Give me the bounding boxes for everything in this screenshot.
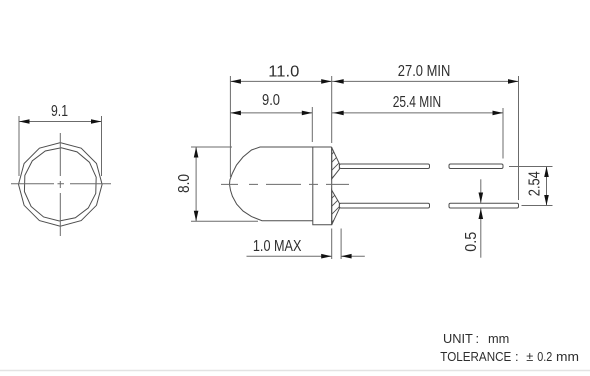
dim 9.1 arrow left [19, 119, 30, 124]
svg-text:0.5: 0.5 [463, 232, 480, 252]
dim 9.1 extension line right [101, 116, 103, 176]
dim 2.54 arrow bottom [544, 195, 549, 206]
dim 2.54 arrow top [544, 167, 549, 178]
svg-text:25.4 MIN: 25.4 MIN [393, 94, 442, 111]
dim 27.0 MIN arrow right [508, 79, 519, 84]
dim 1.0 MAX arrow right [341, 254, 352, 259]
dim 9.1 extension line left [18, 116, 20, 176]
dim 8.0 extension line bottom [191, 220, 258, 222]
dim 9.1 dimension line [19, 121, 102, 123]
LED dome circle (front view, faceted) [24, 148, 96, 221]
dim shared extension line (dome tip) [229, 76, 231, 177]
centerline horizontal (front view) [11, 183, 111, 185]
dim 25.4 MIN dimension line [332, 112, 503, 114]
svg-text:9.1: 9.1 [51, 103, 68, 120]
centerline vertical (front view) [59, 133, 61, 236]
dim 0.5 leader line upper [480, 179, 482, 203]
dim 2.54 dimension line [546, 167, 548, 206]
dim 11.0 arrow left [230, 79, 241, 84]
dim 9.0 dimension line [230, 112, 312, 114]
dim 1.0 MAX leader line right [341, 255, 365, 257]
dim 0.5 leader line lower [480, 209, 482, 258]
dim 11.0 dimension line [230, 80, 331, 82]
bottom page rule [0, 370, 590, 372]
svg-text:9.0: 9.0 [262, 92, 280, 109]
dim 27.0 MIN arrow left [333, 79, 344, 84]
svg-text:2.54: 2.54 [527, 171, 544, 196]
dim 1.0 MAX leader line left [247, 255, 332, 257]
dim 2.54 extension line bottom [522, 205, 553, 207]
dim 0.5 arrow lower (points up) [479, 209, 484, 220]
svg-text:1.0 MAX: 1.0 MAX [253, 238, 302, 255]
LED body dome profile [230, 147, 332, 221]
dim 8.0 extension line top [191, 146, 232, 148]
dim 2.54 extension line top [509, 166, 553, 168]
bottom lead segment 2 (after break) [449, 203, 519, 208]
svg-text:27.0 MIN: 27.0 MIN [398, 63, 451, 80]
dim 8.0 arrow bottom [194, 211, 199, 222]
lead base bottom (hatched trapezoid) [326, 184, 346, 236]
dim 1.0 MAX extension line left [331, 229, 333, 260]
dim 25.4 MIN arrow right [493, 111, 504, 116]
dim shared extension line (flange right) [331, 76, 333, 143]
flange rectangle [313, 147, 332, 225]
dim 27.0 MIN extension line right (long lead tip) [518, 76, 520, 200]
bottom lead segment 1 [339, 203, 429, 208]
top lead segment 1 [339, 164, 429, 169]
dim 25.4 MIN arrow left [333, 111, 344, 116]
LED flange outline (12-sided polygon, front view) [19, 143, 103, 227]
svg-text:UNIT:mm: UNIT:mm [443, 331, 509, 346]
dim 25.4 MIN extension line right (short lead tip) [502, 108, 504, 159]
dim 27.0 MIN dimension line [332, 80, 519, 82]
svg-text:TOLERANCE:±0.2mm: TOLERANCE:±0.2mm [440, 349, 579, 364]
dim 9.0 extension line right (flange left) [311, 107, 313, 142]
dim 8.0 arrow top [194, 147, 199, 158]
dim 8.0 dimension line [195, 147, 197, 221]
dim 9.0 arrow right [302, 111, 313, 116]
dim 0.5 arrow upper (points down) [479, 193, 484, 204]
lead base top (hatched trapezoid) [326, 140, 346, 192]
dim 9.1 arrow right [91, 119, 102, 124]
svg-text:11.0: 11.0 [268, 63, 299, 80]
dim 11.0 arrow right [321, 79, 332, 84]
top lead segment 2 (after break) [449, 164, 503, 169]
svg-text:8.0: 8.0 [176, 174, 193, 193]
dim 9.0 arrow left [230, 111, 241, 116]
dim 1.0 MAX arrow left [321, 254, 332, 259]
centerline (side view) [221, 183, 349, 185]
dim 1.0 MAX extension line right [340, 229, 342, 260]
